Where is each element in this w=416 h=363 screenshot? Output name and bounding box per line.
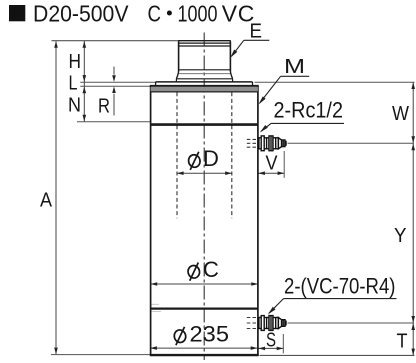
port2 hidden lines [247, 318, 258, 329]
svg-text:D: D [203, 146, 219, 171]
extension line body top left [80, 85, 151, 87]
dimension R arrows [112, 67, 116, 116]
svg-text:C: C [148, 0, 162, 26]
extension line bottom right [260, 354, 415, 356]
svg-text:A: A [40, 190, 53, 212]
svg-text:Y: Y [394, 225, 407, 247]
extension line cap bottom left [77, 121, 150, 123]
svg-text:W: W [392, 103, 409, 125]
coupler fitting 2 [259, 316, 286, 331]
extension line top (plunger top, left) [52, 40, 180, 42]
dimension phi 235 [150, 346, 257, 350]
extension line port1 center right [288, 142, 414, 144]
cap bottom thick line [151, 123, 258, 126]
svg-text:V: V [266, 152, 279, 174]
base corner tick marks [152, 304, 162, 311]
plunger [178, 41, 231, 74]
hidden bore line right [231, 92, 233, 218]
svg-text:T: T [397, 331, 408, 353]
extension line port2 center right [288, 322, 414, 324]
dimension line H-N (left stack) [83, 41, 87, 122]
dimension line A [54, 41, 58, 354]
svg-text:2-(VC-70-R4): 2-(VC-70-R4) [284, 273, 396, 298]
svg-text:2-Rc1/2: 2-Rc1/2 [274, 98, 344, 123]
base top line [151, 308, 258, 310]
extension line collar top right [255, 81, 415, 83]
coupler fitting 1 [259, 136, 286, 151]
svg-text:M: M [284, 56, 305, 78]
dimension V [258, 151, 284, 178]
body top hatched band [151, 87, 258, 92]
dimension S [259, 334, 284, 353]
extension line collar top left [80, 81, 156, 83]
leader E [230, 40, 269, 58]
dimension phi C [151, 282, 258, 286]
svg-text:N: N [68, 95, 81, 117]
svg-text:S: S [266, 330, 276, 352]
svg-text:D20-500V: D20-500V [33, 0, 129, 26]
svg-text:R: R [98, 96, 110, 118]
label phi 235 [173, 327, 187, 345]
dimension phi D [177, 171, 232, 175]
plunger flare [176, 71, 233, 82]
svg-text:235: 235 [190, 321, 230, 346]
hidden bore line left [176, 92, 178, 218]
label phi D [187, 152, 201, 170]
extension line bottom left [51, 354, 150, 356]
leader 2-Rc1/2 [260, 123, 344, 132]
leader M [259, 76, 310, 104]
svg-text:L: L [69, 73, 78, 95]
label phi C [187, 263, 201, 281]
collar plate [156, 82, 253, 86]
center line [203, 33, 205, 361]
title text D20-500V C·1000 VC [33, 0, 254, 26]
cylinder body outline [151, 86, 258, 356]
svg-text:H: H [69, 51, 82, 73]
bottom edge thick line [150, 354, 259, 356]
svg-text:C: C [203, 257, 219, 282]
svg-text:E: E [250, 21, 263, 43]
port1 hidden lines [247, 139, 258, 147]
title square [9, 5, 25, 21]
leader 2-(VC-70-R4) [268, 299, 397, 315]
svg-text:V: V [222, 0, 238, 26]
band bottom line [151, 91, 258, 93]
body top edge line [150, 85, 259, 87]
svg-text:1000: 1000 [178, 0, 218, 26]
dimension line W Y T (right) [411, 82, 415, 355]
